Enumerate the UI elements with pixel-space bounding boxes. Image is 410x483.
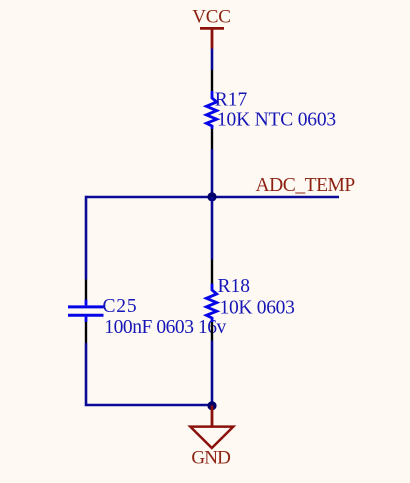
wire node A to left bbox=[86, 196, 212, 199]
svg-text:10K NTC 0603: 10K NTC 0603 bbox=[217, 110, 336, 131]
node A junction dot bbox=[207, 192, 216, 201]
resistor R18 bbox=[206, 284, 216, 323]
wire node A to R18 bbox=[211, 197, 214, 260]
label C25 bbox=[103, 296, 138, 317]
wire R17 to node A bbox=[211, 149, 214, 197]
ground symbol GND bbox=[190, 406, 233, 469]
svg-text:10K 0603: 10K 0603 bbox=[220, 298, 295, 319]
capacitor C25 bbox=[68, 300, 104, 323]
label R18 bbox=[218, 276, 251, 297]
svg-text:ADC_TEMP: ADC_TEMP bbox=[256, 175, 356, 196]
svg-text:R17: R17 bbox=[215, 90, 248, 111]
svg-text:100nF 0603 16v: 100nF 0603 16v bbox=[104, 317, 226, 338]
C25 pin 2 bbox=[85, 322, 87, 343]
R18 pin 2 bbox=[211, 322, 213, 341]
svg-text:C25: C25 bbox=[103, 296, 138, 317]
value label 10K NTC 0603 bbox=[217, 110, 336, 131]
wire R18 to node B bbox=[211, 341, 214, 406]
R18 pin 1 bbox=[211, 260, 213, 284]
value label 100nF 0603 16v bbox=[104, 317, 226, 338]
svg-text:R18: R18 bbox=[218, 276, 251, 297]
node B junction dot bbox=[207, 401, 216, 410]
svg-text:GND: GND bbox=[191, 448, 230, 469]
C25 pin 1 bbox=[85, 280, 87, 300]
value label 10K 0603 bbox=[220, 298, 295, 319]
R17 pin 2 bbox=[211, 129, 213, 149]
wire VCC to R17 bbox=[211, 49, 214, 71]
R17 pin 1 bbox=[211, 70, 213, 91]
wire node A to right (ADC_TEMP) bbox=[212, 196, 339, 199]
wire C25 to node B bbox=[86, 343, 212, 405]
net label ADC_TEMP bbox=[256, 175, 356, 196]
resistor R17 bbox=[206, 91, 216, 129]
svg-text:VCC: VCC bbox=[192, 7, 231, 28]
wire left branch down to C25 bbox=[85, 196, 88, 280]
label R17 bbox=[215, 90, 248, 111]
power symbol VCC bbox=[192, 7, 231, 49]
